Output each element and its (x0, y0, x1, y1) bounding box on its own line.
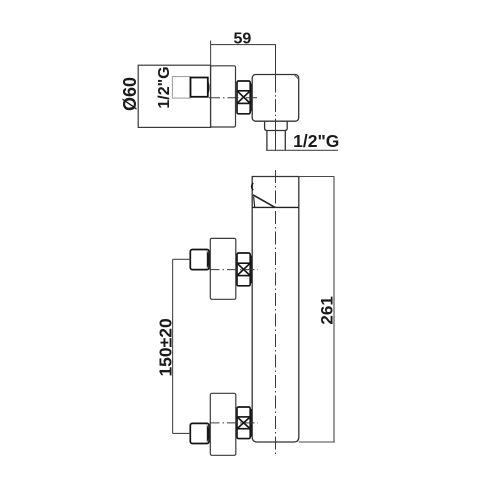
vertical centerline (top view body axis) (275, 45, 277, 151)
svg-text:261: 261 (318, 296, 337, 324)
vertical centerline (front body axis) (275, 170, 277, 456)
centerline top union (210, 269, 259, 271)
union connector (237, 253, 251, 286)
outlet pipe (top view) (267, 131, 285, 151)
handle lever diagonal (253, 195, 275, 208)
fitting cone (top view) (207, 79, 209, 97)
mixer body (front view) (252, 177, 299, 443)
nut/escutcheon cone (207, 250, 209, 269)
escutcheon (top view) (211, 66, 236, 127)
dimension 59: left extension (210, 41, 212, 66)
svg-text:1/2"G: 1/2"G (156, 66, 173, 108)
underline of outlet / leader for 1/2"G (266, 149, 338, 151)
inlet fitting large rect (dark) (191, 78, 208, 97)
outlet nut (top view) (265, 121, 288, 130)
svg-text:150±20: 150±20 (156, 318, 176, 377)
centerline bottom union (210, 422, 259, 424)
extension line to top nut (173, 258, 191, 260)
svg-text:1/2"G: 1/2"G (293, 131, 339, 151)
horizontal centerline (top view) (209, 97, 259, 99)
body top inner edge (252, 206, 299, 208)
svg-text:59: 59 (234, 30, 252, 47)
wall nut (190, 423, 209, 443)
inlet fitting small rect (light) (172, 77, 190, 99)
body chamfer mark (top view) (294, 75, 298, 79)
union connector (top view) (237, 81, 251, 114)
dimension 150±20: vertical line (172, 259, 174, 433)
escutcheon (210, 238, 236, 299)
nut/escutcheon cone (207, 424, 209, 443)
dimension 59: line (211, 44, 276, 46)
dimension 261: bottom extension (299, 441, 335, 443)
handle end cap ellipse (252, 183, 253, 191)
escutcheon (210, 393, 236, 455)
union connector (237, 407, 251, 439)
union housing (top view big rect) (138, 65, 210, 127)
handle joint line (254, 197, 255, 208)
extension line to bottom nut (173, 432, 191, 434)
dimension 261: vertical line (333, 177, 335, 443)
wall nut (190, 250, 209, 270)
dimension 261: top extension (299, 176, 335, 178)
svg-text:Ø60: Ø60 (120, 77, 140, 111)
mixer body (top view rounded square) (252, 75, 299, 122)
